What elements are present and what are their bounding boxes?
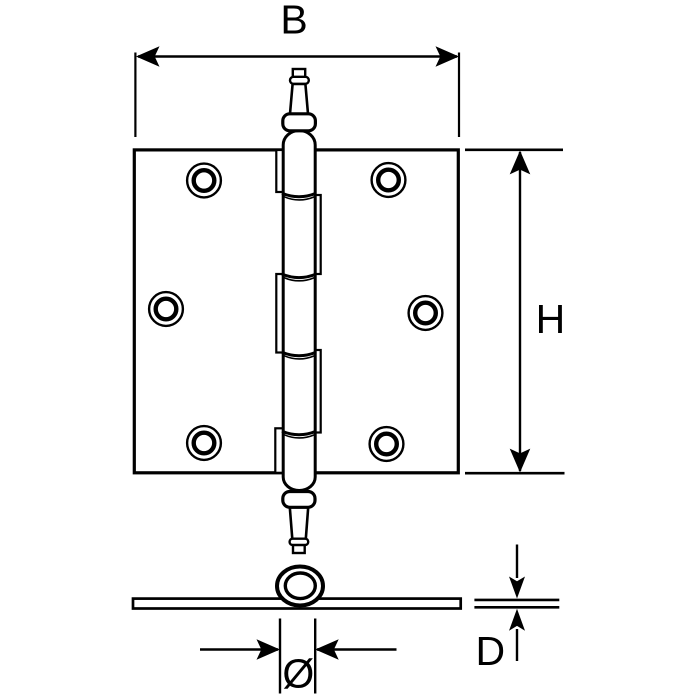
svg-text:B: B [280, 0, 307, 43]
svg-text:Ø: Ø [282, 650, 314, 696]
svg-text:D: D [475, 628, 505, 674]
svg-text:H: H [536, 296, 566, 342]
